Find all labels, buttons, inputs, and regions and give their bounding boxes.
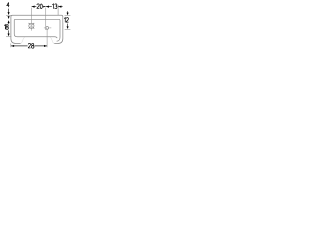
dim 28: line (11, 45, 47, 47)
dim 12: bottom arrow (down) (67, 26, 69, 29)
dim 12: bottom tick (65, 28, 71, 30)
dim 12: lower stem (67, 24, 69, 27)
dim 28: right arrow (44, 45, 47, 47)
dim 20: left arrow (32, 6, 35, 8)
dim 18: bottom arrow (down) (8, 34, 10, 37)
tick y15 left (6, 14, 12, 16)
tick y36.6 left (6, 36, 11, 38)
dim 4: label (6, 2, 10, 8)
dim 18: lower stem (8, 30, 10, 33)
tap hole centerline (vertical, from top dim down through hole) (31, 8, 33, 31)
tap hole diagonal cross (32, 27, 34, 29)
dim 13: label (52, 3, 58, 9)
dim 20: right arrow (43, 6, 46, 8)
dim 18: upper stem (8, 23, 10, 24)
dim 4: stem (8, 9, 10, 13)
dim 13: left arrow (46, 6, 49, 8)
dim 12: top tick (65, 14, 71, 16)
second hole extension line (vertical) (45, 8, 47, 30)
drain vertical centerline down to bottom dim (46, 29, 48, 47)
dim 13: right arrow (59, 6, 62, 8)
dim 28: label (28, 43, 35, 49)
recess transition right (faint) (50, 37, 54, 43)
tap hole circle (29, 23, 34, 28)
dim 20: label (36, 3, 43, 9)
dim 12: top stem (67, 11, 69, 13)
inner bowl rim (14, 19, 60, 41)
outer basin outline (concave front) (11, 15, 63, 43)
dim 20: line (32, 6, 46, 8)
dim 18: top arrow (up at y19) (8, 20, 10, 23)
dim 12: top arrow (down) (67, 13, 69, 16)
dim 4: top arrow (down) (8, 12, 10, 15)
drain circle (46, 27, 49, 30)
13 right extension line (57, 5, 59, 15)
dim 18: label (3, 24, 8, 30)
recess transition left (faint) (21, 37, 25, 43)
bowl front edge (14, 34, 57, 38)
dim 28: left arrow (11, 45, 14, 47)
left edge extension to bottom dim (10, 43, 12, 47)
drain horizontal centerline dashes (44, 27, 46, 29)
dim 13: line (46, 6, 58, 8)
dim 4: bottom arrow (down at y19) (8, 16, 10, 19)
dim 12: label (63, 17, 69, 23)
